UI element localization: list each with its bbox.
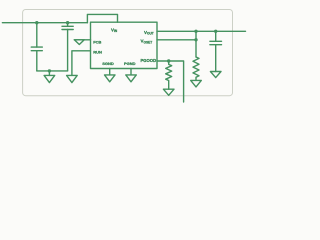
svg-text:VOSET: VOSET	[141, 39, 153, 45]
svg-text:PGOOD: PGOOD	[141, 58, 157, 63]
svg-text:FCB: FCB	[93, 39, 101, 44]
svg-text:SGND: SGND	[102, 61, 114, 66]
svg-text:VIN: VIN	[111, 27, 118, 33]
svg-text:VOUT: VOUT	[144, 30, 154, 36]
svg-text:RUN: RUN	[93, 49, 102, 54]
svg-text:PGND: PGND	[124, 61, 136, 66]
